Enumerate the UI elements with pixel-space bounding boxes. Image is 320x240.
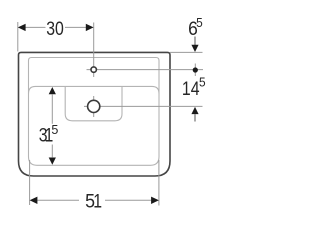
dim 6.5: arrow tail	[194, 37, 196, 46]
top edge extension line (right)	[170, 51, 203, 53]
dim 30: left extension line	[17, 22, 19, 52]
dim 6.5/14.5: dot marker	[193, 67, 198, 72]
bowl opening top edge	[29, 86, 160, 93]
dim 6.5/14.5: dot tick	[194, 64, 196, 77]
dim 31.5: up arrow	[49, 87, 56, 94]
faucet hole	[91, 67, 96, 72]
faucet hole centerline vertical (extension for 30)	[93, 23, 95, 78]
dim 30: line right segment	[65, 26, 86, 28]
dim 51: left arrow	[30, 197, 38, 204]
dim 30: left arrow	[18, 24, 26, 31]
outer ceramic outline	[19, 52, 171, 176]
dim 51: line right segment	[105, 199, 151, 201]
svg-text:5: 5	[196, 15, 203, 30]
drain hole	[88, 100, 100, 112]
dim 51: right arrow	[151, 197, 159, 204]
dim 14.5: arrow tail	[194, 114, 196, 121]
dim 30: right arrow	[86, 24, 94, 31]
dim 51: right extension line	[158, 160, 160, 206]
svg-text:5: 5	[199, 75, 206, 90]
faucet hole centerline horizontal (reference for 6.5)	[87, 69, 204, 71]
dim 51: left extension line	[29, 160, 31, 205]
inner rim outline	[29, 58, 160, 166]
dim 31.5: line lower segment	[51, 145, 53, 158]
svg-text:14: 14	[182, 77, 200, 99]
drain centerline horizontal (reference for 14.5)	[84, 105, 203, 107]
bowl floor depression	[65, 86, 122, 120]
dim 30: line left segment	[25, 26, 45, 28]
dim 14.5: up arrow	[191, 107, 198, 114]
dim 31.5: line upper segment	[51, 94, 53, 124]
dim 6.5: down arrow	[191, 45, 198, 52]
dim 51: line left segment	[37, 199, 79, 201]
svg-text:1: 1	[93, 190, 102, 212]
dim 31.5: down arrow	[49, 158, 56, 165]
drain centerline vertical	[93, 96, 95, 117]
svg-text:30: 30	[46, 17, 64, 39]
svg-text:5: 5	[51, 122, 58, 137]
